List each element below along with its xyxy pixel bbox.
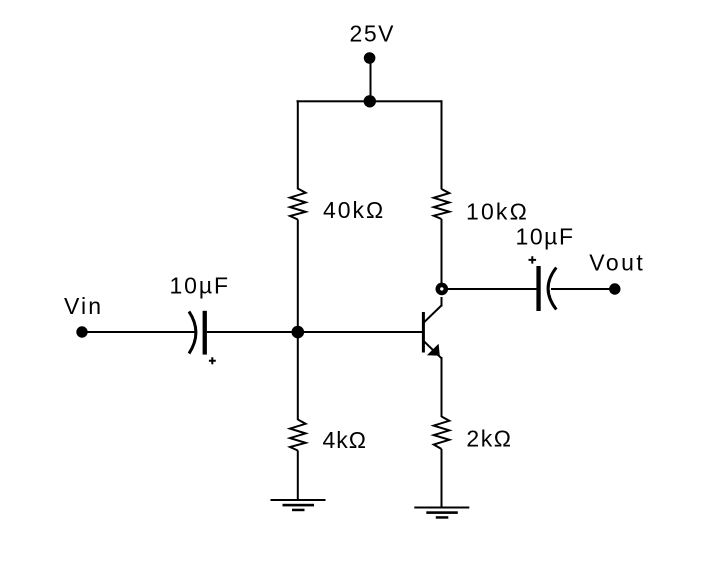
plus sign C2 [529,256,537,263]
svg-text:10kΩ: 10kΩ [466,198,527,224]
transistor Q1 collector diagonal [424,306,441,323]
node collector junction [436,283,449,296]
svg-text:10µF: 10µF [516,223,574,249]
transistor Q1 emitter arrow [427,344,440,356]
wire collector stub [441,297,443,307]
junction top rail [364,95,376,107]
plus sign C1 [209,357,216,364]
resistor R4 2k zigzag [434,417,450,450]
svg-text:Vin: Vin [64,293,101,319]
wire output left [442,288,537,290]
resistor R1 40k zigzag [290,189,306,220]
svg-text:2kΩ: 2kΩ [466,425,511,451]
transistor Q1 base bar [422,312,425,353]
wire supply vertical [370,58,372,102]
ground right [414,507,469,519]
terminal Vin [76,326,87,337]
resistor R3 4k zigzag [290,420,306,451]
wire top rail [297,100,443,102]
terminal 25V supply [364,52,376,64]
wire left branch lower [297,332,299,420]
capacitor C1 curved plate [189,312,196,354]
wire input right [207,331,298,333]
terminal Vout [609,283,620,294]
wire left branch mid [297,220,299,333]
wire right branch upper [441,100,443,189]
svg-text:4kΩ: 4kΩ [323,427,367,453]
transistor Q1 emitter diagonal [424,341,442,358]
node base junction [292,326,305,339]
ground left [271,499,326,511]
wire left branch to ground [297,451,299,501]
wire right branch to collector node [441,219,443,289]
wire left branch upper [297,100,299,189]
svg-text:40kΩ: 40kΩ [323,197,383,223]
svg-text:10µF: 10µF [170,272,229,298]
svg-text:25V: 25V [350,21,395,47]
wire emitter vertical [441,357,443,417]
wire input left [82,331,196,333]
capacitor C2 flat plate [536,266,540,311]
capacitor C2 curved plate [548,268,556,310]
wire base [298,331,423,333]
capacitor C1 flat plate [203,311,207,355]
resistor R2 10k zigzag [434,189,450,219]
wire output right [551,288,615,290]
wire right branch to ground [441,449,443,508]
